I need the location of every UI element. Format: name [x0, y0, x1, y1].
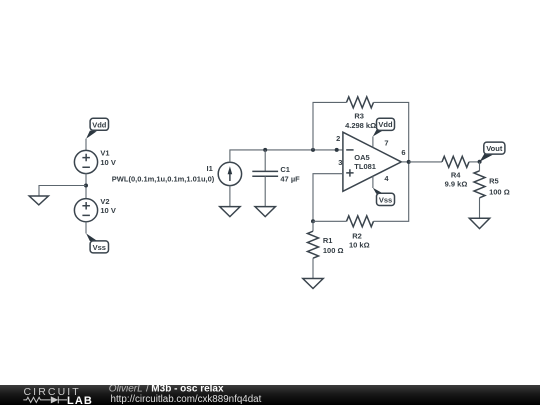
wire to left ground — [39, 186, 86, 197]
svg-text:9.9 kΩ: 9.9 kΩ — [445, 180, 468, 189]
resistor R5 — [474, 162, 485, 218]
node junction C1 top — [263, 148, 267, 152]
svg-text:Vss: Vss — [93, 243, 106, 252]
ground (below R1) — [303, 279, 323, 289]
resistor R4 — [442, 156, 469, 167]
wire I1 top to opamp -input — [230, 150, 343, 163]
svg-text:4: 4 — [384, 174, 389, 183]
ground (below R5) — [469, 218, 489, 228]
label OA5 TL081 — [354, 153, 376, 171]
svg-text:C1: C1 — [280, 165, 290, 174]
node junction V1-V2-gnd — [84, 184, 88, 188]
resistor R1 — [308, 221, 319, 278]
logo resistor-diode art — [23, 396, 67, 403]
svg-text:R1: R1 — [323, 236, 333, 245]
svg-text:4.298 kΩ: 4.298 kΩ — [345, 121, 376, 130]
node junction output — [407, 160, 411, 164]
flag Vout — [480, 142, 505, 162]
label R4 value — [445, 171, 468, 189]
svg-text:V2: V2 — [100, 197, 109, 206]
flag Vdd (left) — [86, 118, 108, 138]
label R3 value — [345, 112, 376, 130]
pin 7 stub — [372, 136, 374, 147]
svg-text:I1: I1 — [207, 164, 213, 173]
label R5 value — [489, 176, 510, 196]
flag Vdd (op-amp) — [373, 118, 395, 136]
label V2 value — [100, 197, 115, 215]
wire R2 to output rail — [374, 162, 409, 221]
svg-text:Vdd: Vdd — [92, 120, 107, 129]
node junction -input / R3 — [311, 148, 315, 152]
node pin2 wire joint — [335, 148, 339, 152]
wire output to R4 — [409, 161, 442, 163]
node junction R1/R2 — [311, 219, 315, 223]
current source I1 — [218, 162, 241, 185]
svg-text:3: 3 — [338, 158, 342, 167]
svg-text:Vout: Vout — [486, 144, 503, 153]
svg-text:10 V: 10 V — [100, 158, 115, 167]
svg-text:PWL(0,0.1m,1u,0.1m,1.01u,0): PWL(0,0.1m,1u,0.1m,1.01u,0) — [112, 174, 215, 183]
label R1 value — [323, 236, 344, 255]
op-amp plus sign — [346, 169, 353, 176]
svg-text:R4: R4 — [451, 171, 461, 180]
svg-text:Vdd: Vdd — [378, 120, 393, 129]
ground (below I1) — [220, 207, 240, 217]
svg-text:V1: V1 — [100, 149, 109, 158]
svg-text:LAB: LAB — [67, 394, 93, 405]
svg-text:47 µF: 47 µF — [280, 175, 300, 184]
capacitor C1 — [252, 150, 278, 207]
svg-text:7: 7 — [384, 139, 388, 148]
wire R3 to output rail — [374, 102, 409, 161]
svg-text:10 V: 10 V — [100, 206, 115, 215]
svg-text:Vss: Vss — [379, 195, 392, 204]
wire + input branch — [313, 174, 343, 222]
svg-text:http://circuitlab.com/cxk889nf: http://circuitlab.com/cxk889nfq4dat — [111, 394, 262, 405]
label C1 value — [280, 165, 300, 183]
svg-text:R2: R2 — [352, 232, 362, 241]
svg-text:100 Ω: 100 Ω — [489, 187, 510, 196]
svg-text:OA5: OA5 — [354, 153, 369, 162]
wire I1 bottom to ground — [229, 185, 231, 206]
node junction Vout — [478, 160, 482, 164]
svg-text:R5: R5 — [489, 176, 499, 185]
ground (left) — [29, 196, 48, 205]
wire R4 to Vout node — [469, 161, 480, 163]
voltage source V2 — [74, 199, 97, 222]
resistor R3 — [347, 97, 374, 108]
flag Vss (op-amp) — [373, 188, 395, 206]
pin 4 stub — [372, 176, 374, 188]
footer bar — [0, 385, 540, 406]
wire R3 feedback left branch — [313, 102, 347, 149]
svg-text:TL081: TL081 — [354, 162, 376, 171]
flag Vss (left) — [86, 233, 108, 253]
resistor R2 — [347, 216, 374, 227]
svg-text:100 Ω: 100 Ω — [323, 246, 344, 255]
op-amp output stub — [401, 161, 408, 163]
label V1 value — [100, 149, 115, 167]
svg-text:R3: R3 — [354, 112, 364, 121]
svg-text:10 kΩ: 10 kΩ — [349, 241, 370, 250]
wire V2 to Vss — [85, 221, 87, 233]
svg-text:6: 6 — [401, 148, 405, 157]
wire Vdd stub to V1 — [85, 139, 87, 151]
label I1 value PWL — [112, 164, 215, 183]
op-amp minus sign — [346, 149, 353, 151]
label R2 value — [349, 232, 370, 250]
wire V1 to V2 — [85, 173, 87, 199]
voltage source V1 — [74, 150, 97, 173]
ground (below C1) — [255, 207, 275, 217]
op-amp OA5 triangle — [343, 132, 401, 191]
svg-text:2: 2 — [336, 134, 340, 143]
wire junction to R2 — [313, 220, 347, 222]
